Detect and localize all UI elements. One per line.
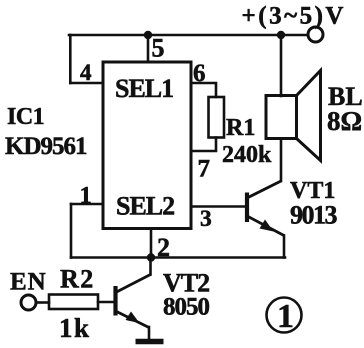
svg-text:EN: EN — [10, 269, 47, 296]
node junction dot at speaker feed — [277, 31, 285, 39]
svg-text:R1: R1 — [226, 115, 255, 141]
wire pin 3 to VT1 base — [191, 205, 246, 208]
wire VT2 emitter to ground — [148, 327, 151, 339]
wire R2 input lead — [37, 301, 49, 304]
svg-text:5: 5 — [152, 34, 165, 63]
svg-text:KD9561: KD9561 — [5, 133, 87, 160]
transistor VT2 — [116, 275, 151, 328]
wire pin 4 horizontal — [70, 82, 103, 85]
svg-text:R2: R2 — [60, 265, 95, 294]
svg-text:SEL1: SEL1 — [115, 74, 173, 103]
svg-text:4: 4 — [80, 60, 92, 85]
figure number 1 circled — [267, 298, 302, 333]
svg-text:240k: 240k — [222, 142, 272, 168]
wire VT1 emitter vertical — [283, 236, 286, 258]
op-amp U1 IC box — [103, 62, 191, 229]
node junction dot at pin5/rail — [144, 31, 152, 39]
node junction dot at pin2/bottom rail — [147, 253, 155, 261]
wire R2 to VT2 base — [98, 301, 114, 304]
wire top power rail — [69, 34, 307, 37]
wire pin 5 vertical — [147, 35, 150, 62]
terminal +V circle — [308, 27, 323, 42]
terminal EN circle — [21, 295, 36, 310]
resistor R2 — [49, 295, 98, 310]
svg-text:SEL2: SEL2 — [116, 192, 174, 221]
svg-text:1: 1 — [277, 298, 294, 335]
wire speaker top feed — [280, 35, 283, 96]
svg-text:8Ω: 8Ω — [327, 106, 362, 136]
wire bottom rail — [71, 256, 285, 259]
svg-text:8050: 8050 — [163, 294, 210, 321]
ground — [136, 339, 164, 345]
transistor VT1 — [247, 181, 284, 236]
svg-text:1k: 1k — [59, 313, 91, 343]
speaker BL — [266, 71, 321, 161]
wire VT2 collector vertical — [149, 258, 152, 275]
svg-text:2: 2 — [157, 233, 170, 262]
svg-text:IC1: IC1 — [7, 104, 44, 130]
svg-text:3: 3 — [200, 206, 212, 232]
svg-text:+(3~5)V: +(3~5)V — [242, 3, 346, 30]
svg-text:6: 6 — [193, 60, 206, 87]
VT1 emitter arrow — [260, 220, 274, 232]
svg-text:1: 1 — [80, 182, 92, 209]
VT2 emitter arrow — [126, 312, 140, 324]
svg-text:7: 7 — [198, 156, 211, 183]
wire left vertical pin 1 to bottom rail — [70, 204, 73, 258]
wire pin 6 to R1 top — [191, 83, 216, 97]
wire R1 bottom to pin 7 — [191, 138, 216, 152]
wire VT1 collector vertical — [280, 139, 283, 182]
svg-text:9013: 9013 — [290, 201, 338, 230]
wire pin 1 horizontal — [71, 203, 103, 206]
resistor R1 — [209, 97, 225, 138]
wire left vertical from rail to pin 4 — [69, 35, 72, 83]
wire pin 2 vertical — [150, 229, 153, 258]
